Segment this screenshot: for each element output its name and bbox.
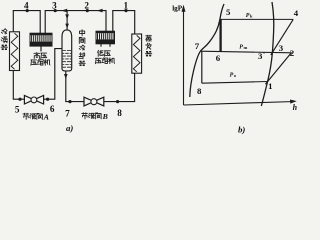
label condenser 冷凝器 [1,29,7,34]
condenser coil [11,33,18,69]
svg-text:B: B [102,112,108,121]
wire: intercooler bottom outlet to throttle valve B (7) [66,71,84,102]
isobar Po [202,82,268,84]
node 5 [18,98,21,101]
svg-text:lgP: lgP [172,4,183,12]
label 压缩机 (HP) [31,60,37,65]
axis h (x-axis) [184,102,295,106]
LP compressor legs [101,44,110,47]
saturated liquid curve [190,4,224,97]
svg-text:o: o [234,73,237,78]
svg-text:7: 7 [65,109,70,119]
node 4 [26,9,29,12]
svg-text:6: 6 [50,104,55,114]
svg-text:4: 4 [294,8,299,18]
throttle valve B [84,97,104,106]
node 3 [54,9,57,12]
svg-text:2: 2 [290,48,295,58]
wire: HP compressor discharge line (4) to condenser [13,11,40,34]
label evaporator 蒸发器 [146,35,152,41]
svg-text:h: h [293,103,298,112]
node 1 [124,9,127,12]
evaporator [132,34,142,73]
svg-text:6: 6 [216,53,221,63]
flow arrow down into intercooler (lower) [65,24,69,29]
intermediate cooler vessel [62,30,72,71]
HP compressor body [30,33,52,46]
evaporator coil [133,35,140,71]
wire: intercooler top feed pipe [66,11,68,31]
svg-text:3: 3 [279,43,284,53]
flow arrow down into intercooler (upper) [65,14,69,19]
flow arrow toward HP compressor [61,9,67,13]
node 6 [46,98,49,101]
compression line 3-4 [271,19,293,55]
throttle line 5-6 (bold) [219,19,221,51]
svg-text:4: 4 [24,0,29,10]
svg-text:m: m [244,45,248,50]
svg-text:5: 5 [15,104,20,114]
flow arrow from LP compressor [97,9,103,13]
label 高压 [34,52,40,58]
wire: evaporator to LP compressor suction (1) [113,11,135,34]
saturated vapour curve [261,2,273,106]
svg-text:k: k [250,13,253,18]
wire: valve A to intercooler side inlet (6) [44,49,62,100]
node 2 [86,9,89,12]
flow arrow down to valve B [64,74,68,79]
svg-text:1: 1 [268,81,272,91]
wire: condenser outlet to throttle valve A (5) [13,71,24,100]
svg-text:1: 1 [124,0,129,10]
isobar Pm [200,51,291,53]
svg-text:5: 5 [226,7,231,17]
svg-text:2: 2 [84,0,89,10]
svg-text:″: ″ [262,52,265,58]
intercooler liquid [63,51,72,68]
svg-text:3: 3 [52,0,57,10]
throttle line 7-8 [201,51,203,83]
svg-text:a): a) [66,123,73,133]
svg-text:8: 8 [197,86,202,96]
condenser [10,32,20,71]
label 压缩机 (LP) [95,58,101,63]
label 低压 [98,50,104,56]
svg-text:8: 8 [117,108,122,118]
wire: valve B to evaporator (8) [104,73,135,101]
label 节流阀 A [23,113,29,119]
isobar Pk [220,18,293,20]
HP compressor stand [40,46,42,51]
node 7 [68,100,71,103]
throttle valve A [24,95,43,104]
svg-text:7: 7 [195,41,200,51]
label intercooler 中间冷却器 [80,30,85,36]
axis lgP (y-axis) [183,7,185,105]
svg-text:A: A [43,113,49,122]
LP compressor body [96,31,115,44]
label 节流阀 B [82,113,88,119]
compression line 1-2 [265,53,291,84]
node 8 [116,100,119,103]
svg-text:b): b) [238,124,245,134]
wire: intercooler / LP discharge top line (3,2) [45,11,106,34]
